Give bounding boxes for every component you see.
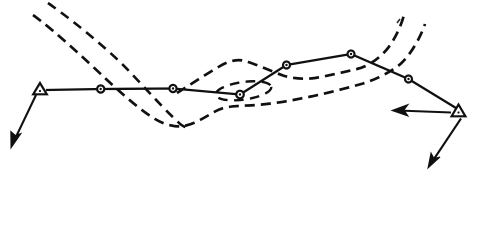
dashed curve U (hump over node region, shallow dip, outer climb to top right)	[177, 11, 405, 93]
solid polyline path T1-N1-N2-N3-N4-N5-N6-T2	[46, 54, 456, 108]
arrow A1 from left triangle down-left	[11, 95, 36, 148]
triangle T1 (left endpoint marker with dot)	[33, 83, 47, 94]
node N6	[405, 76, 412, 83]
node N4	[283, 62, 290, 69]
node N3	[236, 91, 244, 99]
node N1	[97, 85, 104, 92]
dashed curve A (upper-left straight run descending into valley)	[48, 3, 189, 127]
triangle T2 (right endpoint marker with dot)	[452, 105, 466, 117]
dashed curve B (lower-left line through valley bottom, rising right, inner climb to top right)	[33, 15, 425, 126]
tick mark top right	[397, 19, 400, 23]
arrow A3 from right triangle down-left	[428, 119, 461, 169]
arrow A2 from right triangle pointing left	[392, 105, 451, 117]
node N2	[169, 85, 176, 92]
node N5	[348, 51, 355, 58]
dashed ellipse around node N3	[215, 78, 273, 103]
